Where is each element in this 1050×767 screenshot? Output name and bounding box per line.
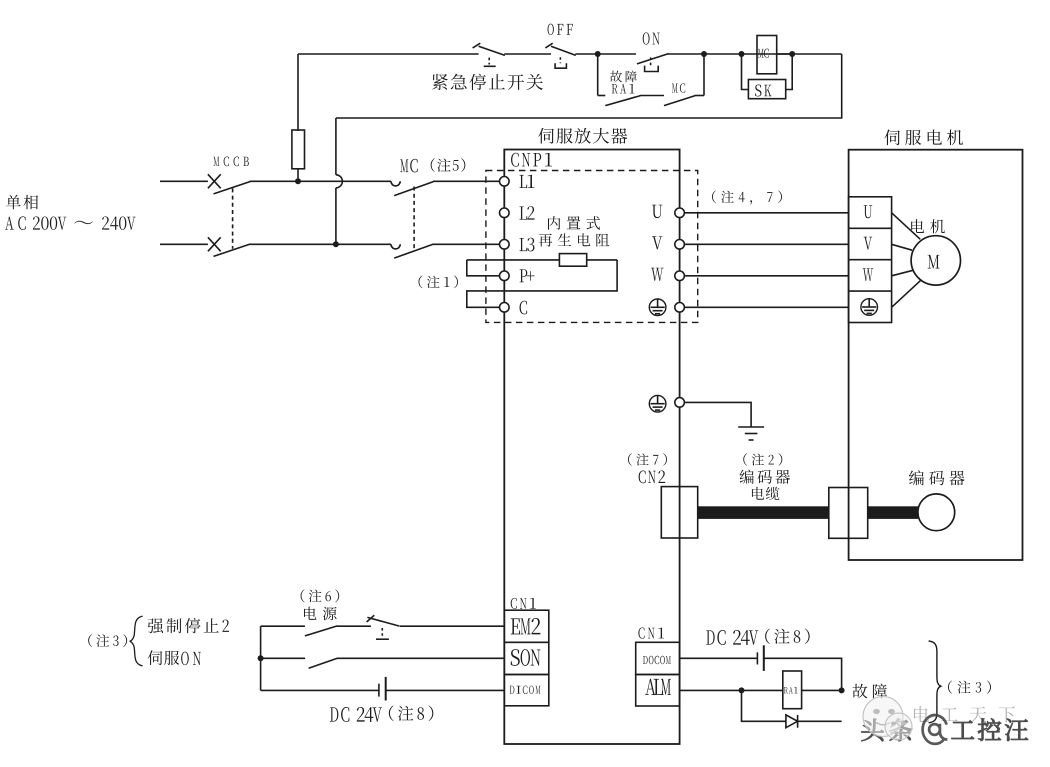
label 伺服电机: [884, 130, 962, 146]
ALM wire segment 2: [802, 689, 842, 691]
brace for inputs: [130, 616, 143, 666]
ground wire: [684, 402, 751, 427]
EM2 wire segment 2: [337, 625, 371, 627]
brace for (注3) right: [929, 641, 941, 723]
watermark 工控汪: [952, 718, 1029, 740]
label 强制停止2: [148, 618, 229, 633]
output terminal W: [651, 268, 684, 281]
terminal box SON: [504, 642, 549, 674]
connector motor side: [829, 488, 868, 539]
node fuse tap on L1: [295, 178, 301, 184]
control drop with hop over L1: [336, 118, 343, 244]
node diode right: [839, 687, 845, 693]
label 电机: [911, 219, 945, 233]
label AC 200V ~ 240V: [5, 216, 135, 230]
MCCB linkage (dashed): [232, 188, 234, 248]
terminal box DOCOM: [636, 642, 680, 674]
PE symbol at output: [649, 299, 666, 316]
phase wire L1 from source: [160, 180, 208, 182]
EM2 wire segment 3: [400, 625, 505, 627]
terminal P+: [500, 269, 535, 282]
encoder circle: [918, 494, 955, 531]
flywheel diode: [786, 715, 798, 728]
node SON junction: [258, 655, 264, 661]
contactor MC pole 1: [391, 181, 433, 195]
junction dot left of MC coil: [739, 51, 745, 57]
PE symbol at amp ground: [649, 395, 666, 412]
label CN2: [639, 470, 666, 483]
output terminal PE: [675, 303, 685, 313]
P+ jumper: [467, 260, 499, 276]
label 再生电阻: [539, 233, 610, 246]
contactor MC pole 2: [391, 244, 433, 258]
emergency stop switch (NC pushbutton): [473, 43, 505, 66]
wire emergency stop to OFF: [504, 53, 551, 55]
DICOM wire segment 2: [386, 689, 505, 691]
ON pushbutton (NO): [637, 54, 669, 72]
node control tap on L3: [333, 241, 339, 247]
right drop wire: [336, 54, 842, 118]
label (注7): [628, 453, 667, 465]
terminal L2: [500, 206, 535, 219]
battery DC 24V output side: [757, 645, 763, 671]
encoder cable amp side: [698, 506, 829, 519]
diode branch wire: [742, 690, 842, 721]
surge killer SK branch: [742, 54, 793, 90]
wire L1 node to MC contact: [298, 180, 391, 182]
label MC（注5）: [400, 158, 465, 172]
output terminal U: [652, 205, 684, 218]
servo ON contact: [309, 658, 338, 668]
label RA1: [612, 84, 635, 94]
label 故障: [852, 684, 887, 699]
built-in regenerative resistor: [559, 254, 586, 267]
MCCB pole 2 (breaker cross): [208, 237, 250, 256]
wire MCCB to fuse node: [250, 180, 298, 182]
OFF pushbutton (NC): [545, 43, 575, 68]
encoder cable motor side: [868, 506, 918, 519]
power NC switch (注6): [367, 615, 400, 639]
label 编码器: [909, 470, 965, 485]
wire W to motor: [684, 275, 848, 277]
battery DC 24V input side: [379, 677, 386, 701]
wire node B to MC coil branch: [704, 53, 742, 55]
holding branch right riser: [703, 54, 705, 96]
label CNP1: [511, 153, 552, 167]
label 故障: [610, 70, 637, 82]
holding branch wire segment 1: [598, 95, 606, 97]
holding branch wire segment 2: [640, 95, 664, 97]
holding branch wire segment 3: [695, 95, 704, 97]
SON wire segment 1: [261, 657, 306, 659]
wire MC pole1 to L1 terminal: [433, 180, 500, 182]
relay contact RA1 (故障): [605, 96, 640, 106]
wire OFF to node A: [575, 53, 597, 55]
amp PE terminal 2: [675, 398, 685, 408]
label MC (self hold): [672, 83, 685, 93]
label DC 24V (注8) right: [706, 629, 809, 645]
servo motor box: [849, 150, 1023, 560]
contactor coil MC: [757, 36, 777, 74]
watermark 头条: [861, 719, 912, 742]
label (注3) right: [948, 681, 991, 694]
label DC 24V (注8) left: [330, 706, 433, 722]
surge killer SK: [748, 80, 785, 99]
wire L3 node to MC contact: [336, 243, 391, 245]
wire MC coil to right junction: [777, 53, 793, 55]
label (注4，7): [712, 190, 782, 204]
contactor MC linkage (dashed): [413, 187, 415, 250]
watermark @ logo: [923, 715, 948, 744]
label 单相: [6, 195, 38, 210]
earth ground symbol: [738, 427, 764, 440]
wire V to motor: [684, 243, 848, 245]
wire MCCB to L3 node: [250, 243, 336, 245]
wire node A to ON button: [598, 53, 636, 55]
label 电缆: [752, 487, 780, 500]
holding branch left drop: [597, 54, 599, 96]
DICOM wire segment 1: [261, 689, 379, 691]
SON wire segment 2: [337, 657, 504, 659]
wire ON to node B: [668, 53, 704, 55]
relay coil RA1: [783, 671, 802, 709]
junction dot right of MC coil: [789, 51, 795, 57]
node diode left: [739, 687, 745, 693]
DOCOM wire segment 2: [764, 658, 842, 690]
servo amplifier box: [504, 150, 679, 745]
terminal C: [500, 301, 528, 315]
EM2 wire segment 1: [261, 625, 305, 627]
label 电源: [304, 607, 337, 621]
regenerative resistor wiring: [467, 260, 617, 307]
watermark 电工天下: [914, 706, 1015, 723]
wire MC coil to right drop: [792, 53, 842, 55]
fuse FU: [292, 54, 305, 181]
wire U to motor: [684, 212, 848, 214]
label MCCB: [213, 157, 248, 167]
terminal L3: [500, 238, 535, 252]
label (注6): [301, 589, 340, 602]
ALM wire segment 1: [680, 689, 783, 691]
label (注2): [743, 453, 782, 465]
terminal box EM2: [504, 610, 549, 642]
wire from fuse to emergency stop switch: [298, 53, 479, 55]
terminal box ALM: [636, 675, 680, 707]
wire MC pole2 to L3 terminal: [433, 243, 500, 245]
wire into MC coil: [742, 53, 793, 55]
label CN1 left: [511, 598, 536, 609]
motor terminal V: [864, 237, 873, 250]
terminal L1: [500, 175, 535, 188]
dashed box CNP1 main circuit: [486, 171, 698, 323]
motor terminal W: [863, 268, 873, 281]
label CN1 right: [638, 628, 664, 639]
label 紧急停止开关: [432, 74, 543, 90]
motor terminal PE symbol: [861, 299, 878, 316]
output terminal V: [652, 236, 684, 249]
input common riser: [260, 626, 262, 690]
motor leads to M: [892, 213, 922, 307]
label OFF: [548, 24, 573, 35]
MCCB pole 1 (breaker cross): [208, 174, 250, 194]
forced stop contact: [305, 626, 337, 636]
motor M circle: [911, 236, 960, 285]
terminal box DICOM: [504, 675, 549, 706]
motor terminal block: [849, 197, 892, 323]
label 编码器 (cable): [740, 469, 790, 483]
label (注1): [418, 276, 458, 289]
wire PE to motor: [684, 306, 848, 308]
phase wire L3 from source: [160, 243, 208, 245]
motor terminal U: [864, 205, 872, 218]
DOCOM wire segment 1: [680, 657, 758, 659]
node B junction: [701, 51, 707, 57]
connector CN2: [661, 487, 697, 538]
label 伺服放大器: [538, 128, 627, 144]
label 内置式: [548, 216, 600, 230]
label ON: [643, 32, 660, 44]
node A junction: [595, 51, 601, 57]
self-holding contact MC: [664, 96, 695, 106]
label (注3) left: [88, 634, 127, 647]
label 伺服ON: [148, 650, 201, 665]
watermark mascot faces: [863, 697, 912, 741]
